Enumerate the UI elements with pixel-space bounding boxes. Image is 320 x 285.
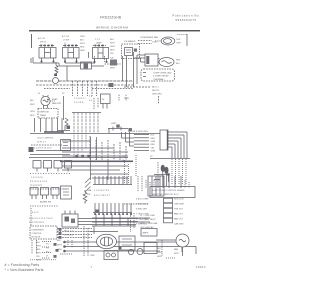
svg-text:BLK: BLK (30, 100, 35, 102)
lower horizontals (62, 166, 128, 178)
svg-text:WHT N: WHT N (152, 90, 159, 92)
svg-text:A 1 2 B: A 1 2 B (62, 35, 69, 38)
sensor box (101, 94, 111, 104)
switch row box 4 (65, 161, 72, 169)
control verticals above (158, 176, 181, 188)
long mid horizontal wire (30, 133, 160, 135)
svg-text:COMP OVERLOAD: COMP OVERLOAD (153, 71, 172, 74)
junction dots right of motor (119, 247, 122, 250)
ice maker box (124, 40, 136, 43)
svg-text:4 5 6 2: 4 5 6 2 (32, 212, 39, 214)
switch row box 1 (33, 161, 41, 169)
connector ladder rungs (134, 135, 149, 151)
legend rows left texts (136, 199, 150, 226)
svg-text:WHT: WHT (110, 43, 115, 45)
dashed wire (30, 188, 66, 190)
connector header bar (72, 112, 101, 114)
ladder feeds (122, 132, 135, 146)
header drops (74, 113, 98, 134)
tall verticals to bus (123, 56, 127, 87)
svg-text:ORN: ORN (36, 253, 41, 255)
dashes down right (157, 162, 159, 176)
dispenser drop verticals (84, 226, 88, 256)
dashed box bottom-left (30, 226, 57, 239)
center grid horizontals (62, 141, 128, 156)
label column 2 (110, 39, 115, 55)
dispenser box wires (57, 229, 92, 238)
svg-text:5995204275: 5995204275 (176, 18, 197, 22)
svg-text:RED: RED (176, 60, 181, 62)
control cluster labels row1 (37, 138, 54, 144)
drops continue to weave (74, 133, 86, 158)
svg-text:RED: RED (151, 144, 156, 146)
svg-text:ALARM SW: ALARM SW (40, 201, 51, 204)
junction dot (96, 210, 99, 213)
svg-text:CONTROL: CONTROL (32, 233, 43, 235)
wire harness top-left (31, 57, 81, 66)
svg-text:4 6: 4 6 (89, 100, 93, 102)
svg-text:ORN: ORN (110, 46, 115, 48)
svg-text:RED: RED (36, 249, 41, 251)
svg-text:RED: RED (110, 50, 115, 52)
svg-text:1 4 2 5 3 6 8: 1 4 2 5 3 6 8 (31, 177, 43, 179)
svg-text:FAN CKT: FAN CKT (174, 218, 184, 221)
svg-text:COLD CONTROL: COLD CONTROL (37, 138, 54, 140)
small box left-mid (61, 186, 72, 199)
svg-text:TMR: TMR (90, 255, 95, 257)
svg-text:P2: P2 (150, 156, 153, 158)
drop to bus (66, 66, 68, 81)
main connector comb bottom (93, 212, 132, 214)
left column dotted drops (125, 155, 137, 184)
svg-text:ORN: ORN (30, 111, 35, 113)
text right bottom (157, 248, 179, 258)
right fan motor (176, 234, 189, 247)
defrost timer dashed box (38, 109, 58, 119)
svg-text:L1 — BLK LINE: L1 — BLK LINE (140, 215, 155, 217)
bottom small box (144, 243, 157, 254)
bottom dashed (60, 253, 72, 255)
thick center bus (60, 161, 133, 163)
condenser fan motor (161, 37, 175, 45)
junction squares right of dispenser (59, 228, 62, 231)
svg-text:P5 P4 P3 P2: P5 P4 P3 P2 (30, 185, 43, 187)
svg-text:DISPENSER: DISPENSER (32, 230, 45, 232)
switch S1 terminals (39, 45, 55, 47)
center grid verticals (90, 136, 126, 160)
svg-text:LAMP: LAMP (96, 42, 102, 45)
svg-text:Publication No.: Publication No. (173, 13, 201, 17)
svg-text:P3: P3 (46, 244, 49, 246)
center bottom grid (92, 218, 150, 226)
legend row cells (164, 198, 173, 203)
svg-text:4 BLK COMP: 4 BLK COMP (136, 199, 149, 201)
svg-text:WHT: WHT (30, 104, 35, 106)
svg-text:BLK: BLK (80, 40, 85, 42)
fan-out wire 6 (168, 147, 172, 158)
svg-text:2P: 2P (62, 93, 65, 95)
center dark verticals (91, 137, 109, 180)
svg-text:TH: TH (102, 99, 105, 101)
bottom ticks (166, 257, 176, 259)
svg-text:7: 7 (91, 266, 93, 269)
left text rows bottom (29, 218, 53, 224)
wire left tick (31, 34, 33, 48)
door alarm switch row rects (30, 188, 38, 196)
bus left tiny labels (38, 93, 65, 95)
defrost limit switch on wire (108, 127, 128, 131)
ladder wire labels (151, 135, 156, 153)
svg-text:B R O Y W G P T: B R O Y W G P T (94, 195, 111, 197)
svg-text:T S: T S (89, 96, 93, 98)
svg-text:BLK: BLK (151, 135, 156, 137)
svg-text:DEFROST: DEFROST (40, 112, 51, 114)
thermistor zigzag (83, 190, 87, 204)
terminal board box (148, 176, 164, 196)
evaporator fan motor circle (41, 96, 50, 105)
dark blob left (29, 147, 34, 152)
bus wire A (36, 80, 133, 82)
svg-text:J5: J5 (125, 95, 128, 97)
svg-text:CON: CON (152, 42, 157, 44)
lamp L2 legs (65, 58, 77, 62)
left-of-amps verticals (131, 213, 135, 232)
svg-text:FRS22ZGHB: FRS22ZGHB (100, 15, 122, 19)
svg-text:GRN: GRN (57, 249, 62, 251)
svg-text:J7: J7 (46, 256, 49, 258)
switch label block (87, 189, 92, 196)
small comp pins (32, 240, 37, 254)
vertical tick (108, 129, 110, 134)
junction dot (109, 83, 114, 87)
svg-text:MTR: MTR (174, 253, 179, 255)
lamp L1 legs (42, 58, 54, 62)
svg-text:ELECTRONIC CONTROL BOARD: ELECTRONIC CONTROL BOARD (153, 189, 186, 192)
switch row box 2 (44, 161, 52, 169)
svg-text:10914: 10914 (196, 265, 206, 269)
wire from relay box (92, 65, 105, 67)
svg-text:CAB GRD: CAB GRD (174, 223, 184, 226)
svg-text:P6: P6 (46, 248, 49, 250)
svg-text:FAN CKT: FAN CKT (174, 213, 184, 216)
overload protector dashed box (141, 69, 175, 81)
plug pair (161, 165, 165, 172)
svg-text:MODULE: MODULE (32, 237, 42, 239)
j-labels (118, 95, 128, 97)
fan-out wire 2 (168, 135, 184, 158)
freezer lamp box L1 (39, 48, 56, 59)
long bottom wires (64, 242, 196, 254)
svg-text:YEL: YEL (151, 147, 156, 149)
bottom-left wire label stack A (36, 242, 41, 262)
svg-text:AMPS: AMPS (143, 232, 150, 235)
svg-text:4 J3 6 8 2 9 1 5 3 7 10 12: 4 J3 6 8 2 9 1 5 3 7 10 12 (29, 218, 53, 220)
svg-text:GRN: GRN (157, 256, 162, 258)
text under dotted row (31, 177, 43, 179)
svg-text:FAN: FAN (174, 248, 179, 251)
svg-text:ICE MAKER: ICE MAKER (124, 40, 136, 43)
cluster mid (94, 98, 98, 110)
plug area wires (154, 175, 169, 183)
bus left dashes (44, 88, 133, 90)
junction dots on weave (75, 155, 78, 158)
svg-text:5J: 5J (38, 93, 40, 95)
wires into start relay (134, 52, 146, 87)
left margin labels (30, 100, 35, 117)
refrigerator lamp box L2 (63, 48, 80, 59)
svg-text:LIMIT: LIMIT (111, 123, 117, 125)
wire right vertical (186, 34, 188, 46)
relay small box (81, 62, 92, 69)
svg-text:LINE SIDE: LINE SIDE (174, 204, 185, 206)
svg-text:WIRING DIAGRAM: WIRING DIAGRAM (96, 26, 128, 30)
svg-text:A 1 2 B: A 1 2 B (38, 37, 45, 40)
svg-text:WHT: WHT (177, 43, 182, 45)
dashes (30, 205, 58, 207)
fan-out wire 4 (168, 141, 178, 158)
svg-text:YEL: YEL (110, 53, 115, 55)
svg-text:J2 P2 4 7: J2 P2 4 7 (37, 142, 47, 144)
short link dashes (42, 242, 52, 259)
svg-text:P L O R B: P L O R B (74, 102, 84, 104)
lamp L3 legs (95, 59, 107, 63)
dashed wires to condenser fan (138, 40, 152, 42)
dash link (124, 203, 148, 205)
horizontal wire (29, 157, 128, 159)
fan-out wire 5 (168, 144, 175, 158)
bus wire B (36, 84, 133, 86)
svg-text:BLK: BLK (176, 63, 181, 65)
dotted row (30, 173, 70, 175)
svg-text:WHT: WHT (157, 252, 162, 254)
svg-text:SW: SW (87, 194, 90, 196)
svg-text:GRN: GRN (80, 50, 85, 52)
wire tags mid (64, 231, 74, 237)
svg-text:& START RELAY: & START RELAY (153, 75, 169, 78)
wire down from terminal stack (158, 96, 160, 104)
right lower wire (150, 158, 190, 160)
dashed pair (138, 176, 142, 192)
lower text rows left (30, 181, 48, 187)
svg-text:# = Functioning Parts: # = Functioning Parts (5, 263, 40, 267)
junction dot on limit wire (129, 128, 132, 131)
small mark (124, 98, 129, 100)
start relay box (145, 54, 158, 66)
svg-text:N — WHT NEUT: N — WHT NEUT (140, 219, 156, 221)
legend row right texts (174, 199, 185, 226)
dashed wire row (31, 144, 62, 146)
small circles bottom (128, 249, 133, 254)
svg-text:P8 P7 P9 P6 P1: P8 P7 P9 P6 P1 (29, 222, 45, 224)
svg-text:1 2 3 4 5 6 7: 1 2 3 4 5 6 7 (74, 98, 86, 100)
svg-text:* = Non-Illustrated Parts: * = Non-Illustrated Parts (5, 268, 44, 272)
svg-text:J4: J4 (118, 95, 121, 97)
svg-text:RED: RED (80, 47, 85, 49)
wire to terminal stack (124, 86, 151, 88)
svg-text:SW #4: SW #4 (40, 42, 47, 44)
svg-text:GRN: GRN (151, 151, 156, 153)
svg-text:GRN GRD: GRN GRD (152, 94, 162, 96)
right corner wires (156, 240, 182, 252)
dotted baseline (30, 259, 56, 261)
bus verticals dropping (73, 81, 97, 96)
defrost timer motor (97, 234, 117, 248)
refrigerator lamp box L3 (95, 39, 102, 45)
rating box (141, 229, 157, 237)
right text block (140, 215, 158, 229)
svg-text:RUN 115V: RUN 115V (174, 199, 184, 201)
paired horizontals (30, 151, 70, 155)
svg-text:PWR: PWR (124, 98, 129, 100)
fan-out drops below (172, 159, 186, 184)
defrost thermostat on bus (53, 78, 59, 84)
svg-text:BLK L1: BLK L1 (152, 87, 160, 89)
refrigerator light switch S2 labels (62, 35, 69, 45)
svg-text:BLK: BLK (177, 39, 182, 41)
svg-text:LT SW: LT SW (63, 40, 69, 42)
svg-text:ICE: ICE (110, 58, 114, 60)
door switch box (62, 214, 78, 227)
svg-text:WHT: WHT (36, 246, 41, 248)
svg-text:(THERMAL): (THERMAL) (153, 78, 165, 81)
junction dots (54, 243, 57, 246)
fan-out wire 3 (168, 138, 181, 158)
svg-text:WHT: WHT (80, 43, 85, 45)
svg-text:5 6 J2 8 9 10 11 12: 5 6 J2 8 9 10 11 12 (34, 148, 52, 150)
svg-text:GRD — GRN CAB: GRD — GRN CAB (140, 222, 158, 225)
svg-text:YEL: YEL (36, 256, 41, 258)
interface board narrow box (160, 130, 168, 150)
svg-text:8 9 5 13 2 6 1 J1 4: 8 9 5 13 2 6 1 J1 4 (30, 181, 48, 183)
freezer light switch S1 labels (38, 37, 47, 44)
text left of motor (90, 255, 95, 257)
defrost heater squiggle (55, 62, 58, 75)
wire above timer motor (90, 226, 118, 234)
svg-text:CONDENSER FAN: CONDENSER FAN (140, 36, 158, 39)
svg-text:ADAPTIVE DEFROST EC-2: ADAPTIVE DEFROST EC-2 (153, 193, 180, 196)
text row (34, 148, 52, 150)
svg-text:BLK: BLK (57, 240, 62, 242)
evap fan labels (52, 98, 62, 105)
svg-text:RED: RED (30, 115, 35, 117)
compressor motor (159, 58, 174, 67)
svg-text:WHT BLK GRN ORN: WHT BLK GRN ORN (128, 131, 148, 133)
svg-text:1 2 3: 1 2 3 (95, 39, 100, 41)
wires right from box (78, 219, 138, 225)
timer legs (35, 118, 63, 132)
switch row box 3 (54, 161, 62, 169)
heater box bottom (119, 236, 135, 250)
switch S2 terminals (63, 45, 78, 47)
electronic control box (150, 187, 195, 198)
left small component (63, 96, 65, 120)
svg-text:TIMER: TIMER (40, 115, 47, 117)
svg-text:MKR: MKR (110, 68, 115, 70)
cluster above bus (95, 56, 121, 64)
left dashed drop to dispenser (30, 208, 32, 226)
connector header labels (74, 98, 86, 104)
comb junction dots (94, 213, 132, 215)
svg-text:1 2 3 4 5 6 7 8 9: 1 2 3 4 5 6 7 8 9 (94, 190, 110, 192)
svg-text:ORN: ORN (151, 141, 156, 143)
svg-text:BLK: BLK (36, 242, 41, 244)
hatch marks left of comb (85, 178, 91, 193)
relay box left-center (61, 140, 71, 151)
wire color list right (152, 87, 162, 96)
svg-text:6 RED DEF: 6 RED DEF (136, 209, 148, 211)
svg-text:EVAP: EVAP (52, 98, 58, 101)
svg-text:FAN MTR: FAN MTR (52, 102, 62, 105)
bottom-left wire label stack B (46, 244, 49, 258)
main connector comb top (93, 184, 132, 186)
brush box under motor (104, 251, 118, 260)
top rule (29, 30, 200, 31)
connector pin labels (94, 190, 111, 197)
fan-out wire 1 (168, 132, 187, 158)
svg-text:HTR CKT: HTR CKT (174, 209, 184, 211)
mid label column (80, 36, 85, 52)
bottom right vertical (161, 240, 163, 256)
svg-text:WHT: WHT (151, 138, 156, 140)
svg-text:BLK: BLK (110, 39, 115, 41)
wire labels along mid wire (128, 131, 148, 133)
svg-text:ORN: ORN (80, 36, 85, 38)
svg-text:BLK: BLK (157, 248, 162, 250)
svg-text:WHT: WHT (57, 245, 62, 247)
